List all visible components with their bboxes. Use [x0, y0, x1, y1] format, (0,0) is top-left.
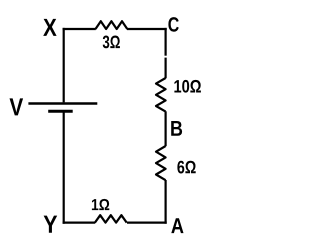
value label 3 ohm (R1)	[103, 36, 120, 49]
value label 1 ohm (R4)	[92, 199, 109, 210]
value label 6 ohm (R3)	[177, 161, 195, 174]
label V (battery voltage source)	[10, 98, 24, 115]
wire: right side, resistor R2 to resistor R3 (node B)	[165, 111, 167, 146]
wire: right side, node C down (upper piece before small gap)	[165, 28, 167, 56]
wire: bottom side, node A to resistor R4 right lead	[127, 222, 167, 224]
node A label	[171, 218, 183, 233]
resistor R1 3-ohm zigzag	[96, 21, 128, 29]
node C label	[168, 17, 178, 32]
node X label	[43, 19, 56, 36]
wire: right side, resistor R3 down to node A	[165, 180, 167, 224]
wire: top side, resistor R1 to node C	[127, 28, 167, 30]
wire: left side, node X down to battery positive plate	[63, 28, 65, 103]
battery V positive plate (long)	[28, 102, 97, 104]
value label 10 ohm (R2)	[174, 80, 201, 93]
resistor R2 10-ohm zigzag	[156, 78, 166, 112]
node B label	[171, 121, 182, 136]
wire: left side, battery negative plate down to node Y	[63, 111, 65, 223]
wire: top side, node X to resistor R1 left lead	[63, 28, 96, 30]
wire: bottom side, resistor R4 to node Y	[63, 222, 96, 224]
wire: right side, below gap down to resistor R2 top lead	[165, 58, 167, 79]
resistor R3 6-ohm zigzag	[156, 146, 166, 180]
resistor R4 1-ohm zigzag	[95, 215, 127, 222]
node Y label	[44, 216, 58, 233]
battery V negative plate (short)	[48, 110, 72, 113]
